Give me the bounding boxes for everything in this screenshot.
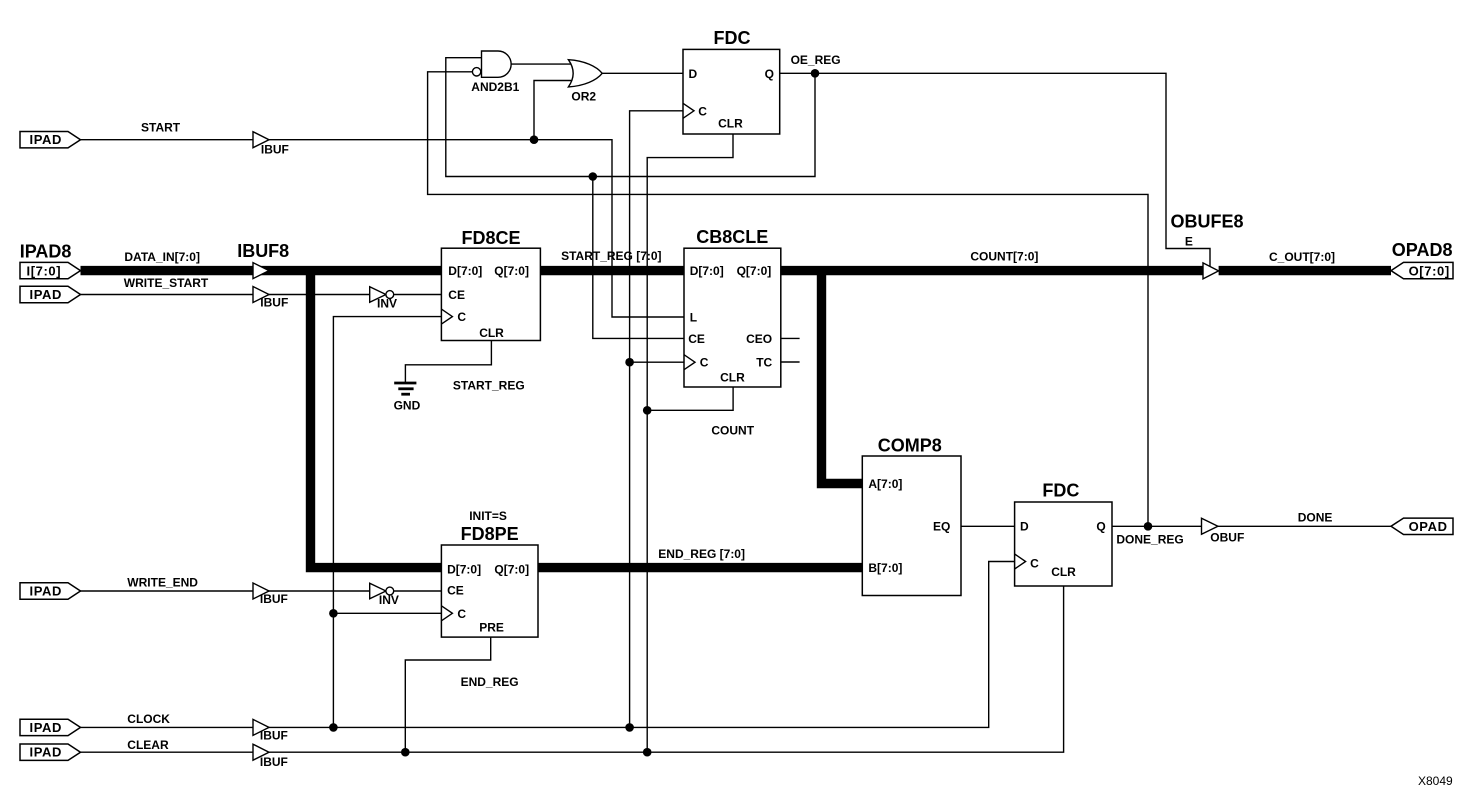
svg-text:INV: INV xyxy=(377,297,397,311)
svg-text:IBUF: IBUF xyxy=(260,296,288,310)
svg-text:EQ: EQ xyxy=(933,520,950,534)
svg-text:IPAD: IPAD xyxy=(30,720,63,735)
svg-text:IPAD8: IPAD8 xyxy=(20,242,72,262)
svg-text:IBUF: IBUF xyxy=(260,592,288,606)
svg-text:C: C xyxy=(1030,557,1039,571)
svg-text:CLR: CLR xyxy=(718,116,743,130)
svg-text:Q: Q xyxy=(1096,520,1105,534)
svg-text:CLEAR: CLEAR xyxy=(127,738,169,752)
svg-text:OPAD8: OPAD8 xyxy=(1392,240,1453,260)
svg-text:AND2B1: AND2B1 xyxy=(471,80,519,94)
svg-text:DATA_IN[7:0]: DATA_IN[7:0] xyxy=(124,250,200,264)
svg-text:FD8CE: FD8CE xyxy=(462,228,521,248)
svg-text:START_REG [7:0]: START_REG [7:0] xyxy=(561,249,661,263)
svg-text:IBUF: IBUF xyxy=(260,729,288,743)
svg-text:D[7:0]: D[7:0] xyxy=(447,562,481,576)
svg-text:C: C xyxy=(700,356,709,370)
svg-text:COUNT[7:0]: COUNT[7:0] xyxy=(970,250,1038,264)
svg-text:C: C xyxy=(457,607,466,621)
svg-text:CEO: CEO xyxy=(746,332,772,346)
svg-text:IPAD: IPAD xyxy=(30,132,63,147)
svg-text:IBUF: IBUF xyxy=(260,755,288,769)
svg-text:OE_REG: OE_REG xyxy=(791,53,841,67)
svg-text:IPAD: IPAD xyxy=(30,584,63,599)
svg-text:X8049: X8049 xyxy=(1418,774,1453,788)
svg-text:C_OUT[7:0]: C_OUT[7:0] xyxy=(1269,250,1335,264)
svg-text:D[7:0]: D[7:0] xyxy=(448,264,482,278)
svg-text:START_REG: START_REG xyxy=(453,378,525,392)
svg-text:CLOCK: CLOCK xyxy=(127,712,170,726)
svg-text:FDC: FDC xyxy=(714,28,751,48)
svg-text:FD8PE: FD8PE xyxy=(461,524,519,544)
svg-text:OPAD: OPAD xyxy=(1409,519,1448,534)
svg-text:CLR: CLR xyxy=(720,371,745,385)
svg-text:C: C xyxy=(698,104,707,118)
svg-text:FDC: FDC xyxy=(1042,481,1079,501)
svg-text:Q[7:0]: Q[7:0] xyxy=(494,264,529,278)
svg-text:O[7:0]: O[7:0] xyxy=(1409,264,1450,279)
svg-text:COUNT: COUNT xyxy=(711,424,754,438)
svg-text:D: D xyxy=(1020,520,1029,534)
svg-text:IBUF: IBUF xyxy=(261,143,289,157)
svg-text:L: L xyxy=(690,311,697,325)
svg-text:Q[7:0]: Q[7:0] xyxy=(494,562,529,576)
svg-text:CLR: CLR xyxy=(1051,565,1076,579)
svg-text:CLR: CLR xyxy=(479,326,504,340)
svg-text:END_REG [7:0]: END_REG [7:0] xyxy=(658,547,745,561)
svg-text:Q[7:0]: Q[7:0] xyxy=(737,264,772,278)
svg-text:C: C xyxy=(457,310,466,324)
svg-text:GND: GND xyxy=(394,399,421,413)
svg-text:CE: CE xyxy=(688,332,705,346)
svg-text:OBUF: OBUF xyxy=(1210,531,1244,545)
svg-text:D[7:0]: D[7:0] xyxy=(690,264,724,278)
svg-text:IBUF8: IBUF8 xyxy=(237,241,289,261)
svg-text:WRITE_END: WRITE_END xyxy=(127,575,198,589)
svg-text:DONE: DONE xyxy=(1298,511,1333,525)
svg-text:IPAD: IPAD xyxy=(30,745,63,760)
svg-text:I[7:0]: I[7:0] xyxy=(27,264,62,279)
svg-text:CE: CE xyxy=(448,288,465,302)
svg-text:CE: CE xyxy=(447,583,464,597)
svg-text:OR2: OR2 xyxy=(571,90,596,104)
svg-text:START: START xyxy=(141,120,181,134)
svg-text:E: E xyxy=(1185,234,1193,248)
svg-text:Q: Q xyxy=(765,67,774,81)
svg-text:IPAD: IPAD xyxy=(30,287,63,302)
svg-text:PRE: PRE xyxy=(479,621,504,635)
svg-text:A[7:0]: A[7:0] xyxy=(868,477,902,491)
svg-text:COMP8: COMP8 xyxy=(878,436,942,456)
svg-text:WRITE_START: WRITE_START xyxy=(124,276,209,290)
svg-text:DONE_REG: DONE_REG xyxy=(1116,532,1183,546)
svg-text:END_REG: END_REG xyxy=(461,675,519,689)
svg-text:TC: TC xyxy=(756,355,772,369)
svg-text:INIT=S: INIT=S xyxy=(469,509,507,523)
svg-text:CB8CLE: CB8CLE xyxy=(696,227,768,247)
svg-text:INV: INV xyxy=(379,593,399,607)
svg-text:D: D xyxy=(689,67,698,81)
svg-text:OBUFE8: OBUFE8 xyxy=(1171,212,1244,232)
svg-text:B[7:0]: B[7:0] xyxy=(868,561,902,575)
